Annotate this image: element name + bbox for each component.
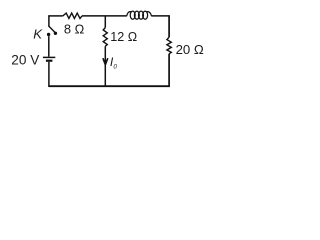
current arrow I0 head (103, 58, 108, 64)
resistor R 12ohm zigzag (103, 28, 107, 47)
wire switch to top-left corner (48, 15, 50, 27)
wire inductor to top-right corner (152, 15, 170, 17)
resistor R 8ohm zigzag (63, 13, 82, 18)
inductor L loops (127, 11, 152, 19)
wire left vertical lower (48, 62, 50, 87)
switch contact dot right (54, 32, 57, 35)
resistor R 20ohm zigzag (167, 37, 171, 54)
svg-text:I0: I0 (110, 55, 117, 71)
wire middle vertical lower (104, 46, 106, 86)
wire top-left to 8ohm (49, 15, 63, 17)
wire right vertical upper (168, 15, 170, 37)
wire bottom (49, 85, 170, 87)
wire 8ohm to inductor (82, 15, 127, 17)
switch K blade (49, 26, 55, 32)
svg-text:K: K (33, 27, 43, 42)
wire battery to switch (48, 36, 50, 56)
battery 20V long plate (43, 56, 55, 58)
svg-text:8 Ω: 8 Ω (64, 22, 85, 37)
wire right vertical lower (168, 54, 170, 87)
wire middle vertical upper (104, 16, 106, 28)
switch contact dot left (47, 33, 50, 36)
battery 20V short plate (46, 60, 53, 62)
svg-text:20 V: 20 V (11, 53, 39, 68)
svg-text:20 Ω: 20 Ω (176, 42, 204, 57)
svg-text:12 Ω: 12 Ω (110, 30, 137, 44)
